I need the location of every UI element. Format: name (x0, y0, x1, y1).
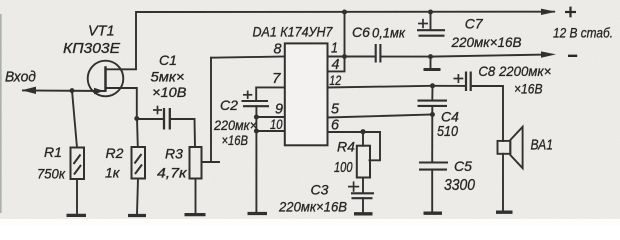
node out-C4 (430, 83, 435, 88)
resistor R1 750k (71, 148, 85, 180)
wire pin8 (211, 57, 285, 58)
capacitor C4 510 (418, 101, 448, 106)
wire R4 tap (370, 132, 381, 160)
ground C2 (248, 212, 268, 215)
arrow minus (541, 51, 556, 57)
capacitor C7 220mk (417, 30, 445, 36)
ground C7 (424, 68, 441, 71)
wire C3 to ground (362, 198, 364, 212)
plus sign C2 (243, 91, 252, 99)
wire R4 to C3 (362, 178, 364, 193)
node rail-C7 (428, 10, 433, 15)
capacitor C6 0.1mk (376, 44, 381, 63)
input arrow (22, 87, 37, 94)
plus sign C3 (348, 181, 359, 191)
capacitor C3 220mk (351, 193, 374, 198)
wire C7 top stem (430, 12, 432, 30)
capacitor C1 5mk x10V (164, 108, 170, 130)
wire pin9 (256, 116, 284, 118)
wire pin12 output (328, 86, 465, 88)
speaker BA1 (498, 127, 523, 168)
wire pin1 (328, 56, 375, 58)
node pin5-C4C5 (430, 112, 435, 117)
wire pin4 jumper (328, 57, 345, 72)
ground BA1 (496, 211, 513, 214)
minus terminal (568, 55, 577, 57)
wire VT1 source (106, 88, 137, 119)
resistor R3 4.7k (190, 147, 202, 179)
wire input gate (23, 89, 106, 92)
wire C5 gnd stem (431, 170, 433, 212)
wire C1 left link (137, 118, 163, 120)
wire R1 to ground (76, 179, 78, 214)
ground R3 (185, 213, 206, 216)
capacitor C8 2200mk (466, 72, 471, 92)
node pin1-4 (342, 54, 347, 59)
wire C8 right to speaker (472, 86, 503, 141)
wire C4-C5 stem (431, 106, 433, 162)
wire C7 gnd stem (430, 57, 432, 69)
arrow +12V (541, 9, 556, 15)
wire top rail +12V (136, 12, 554, 69)
wire pin7 to C2 (256, 87, 285, 100)
wire C6 right (382, 56, 431, 58)
wire pin6 (328, 131, 381, 133)
node C2-pin9 (254, 115, 259, 120)
wire R2 to ground (137, 179, 138, 215)
op-amp U1 DA1 К174УН7 body (285, 43, 328, 145)
wire R3 to ground (195, 179, 197, 214)
ground C5 (424, 212, 443, 215)
gate arrowhead (94, 88, 104, 94)
transistor VT1 КП303Е (88, 61, 124, 97)
wire R2 stem (136, 119, 139, 148)
wire R1 stem (72, 91, 77, 148)
wire R3 tap bar (202, 161, 219, 163)
scan edge artifact (0, 14, 2, 213)
ground R2 (128, 214, 146, 217)
wire C2 bottom to ground (255, 106, 257, 212)
plus sign C1 (153, 106, 162, 115)
node source junction (134, 116, 139, 121)
node input-R1 (70, 88, 75, 93)
wire C1 right to R3 (172, 119, 196, 147)
plus sign C7 (418, 19, 428, 28)
plus terminal (565, 7, 576, 18)
resistor R2 1k (132, 147, 146, 179)
node rail-IC (342, 10, 347, 15)
wire pin1/4 to rail (344, 12, 346, 57)
capacitor C5 3300 (419, 163, 448, 170)
wire tap to pin8 (210, 58, 212, 162)
capacitor C2 220mk (242, 101, 270, 106)
wire VT1 drain (106, 68, 137, 70)
wire R4 stem (362, 132, 364, 146)
wire C4 top stem (431, 86, 433, 101)
wire speaker to ground (502, 154, 504, 211)
node C6-C7-minus (428, 54, 433, 59)
ground R1 (67, 214, 87, 217)
wire pin10 (256, 130, 284, 132)
wire pin5 (328, 115, 433, 118)
node C2-pin10 (254, 129, 259, 134)
node pin6-R4 (360, 129, 365, 134)
ground C3 (354, 212, 373, 215)
wire minus rail (431, 55, 545, 57)
resistor R4 100 (357, 146, 370, 178)
plus sign C8 (454, 74, 464, 83)
